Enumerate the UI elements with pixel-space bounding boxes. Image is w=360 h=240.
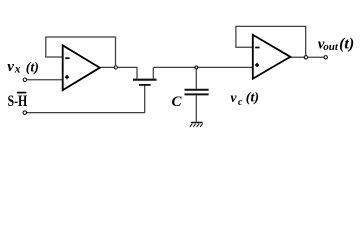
svg-text:(t): (t) [246,91,259,106]
svg-text:S-H: S-H [8,93,28,110]
svg-text:(t): (t) [339,36,354,53]
svg-text:(t): (t) [26,61,39,76]
svg-text:x: x [14,64,21,76]
svg-text:v: v [7,59,14,75]
svg-text:v: v [230,91,237,106]
svg-text:c: c [238,97,243,108]
svg-text:out: out [323,41,339,53]
svg-text:C: C [172,94,183,110]
